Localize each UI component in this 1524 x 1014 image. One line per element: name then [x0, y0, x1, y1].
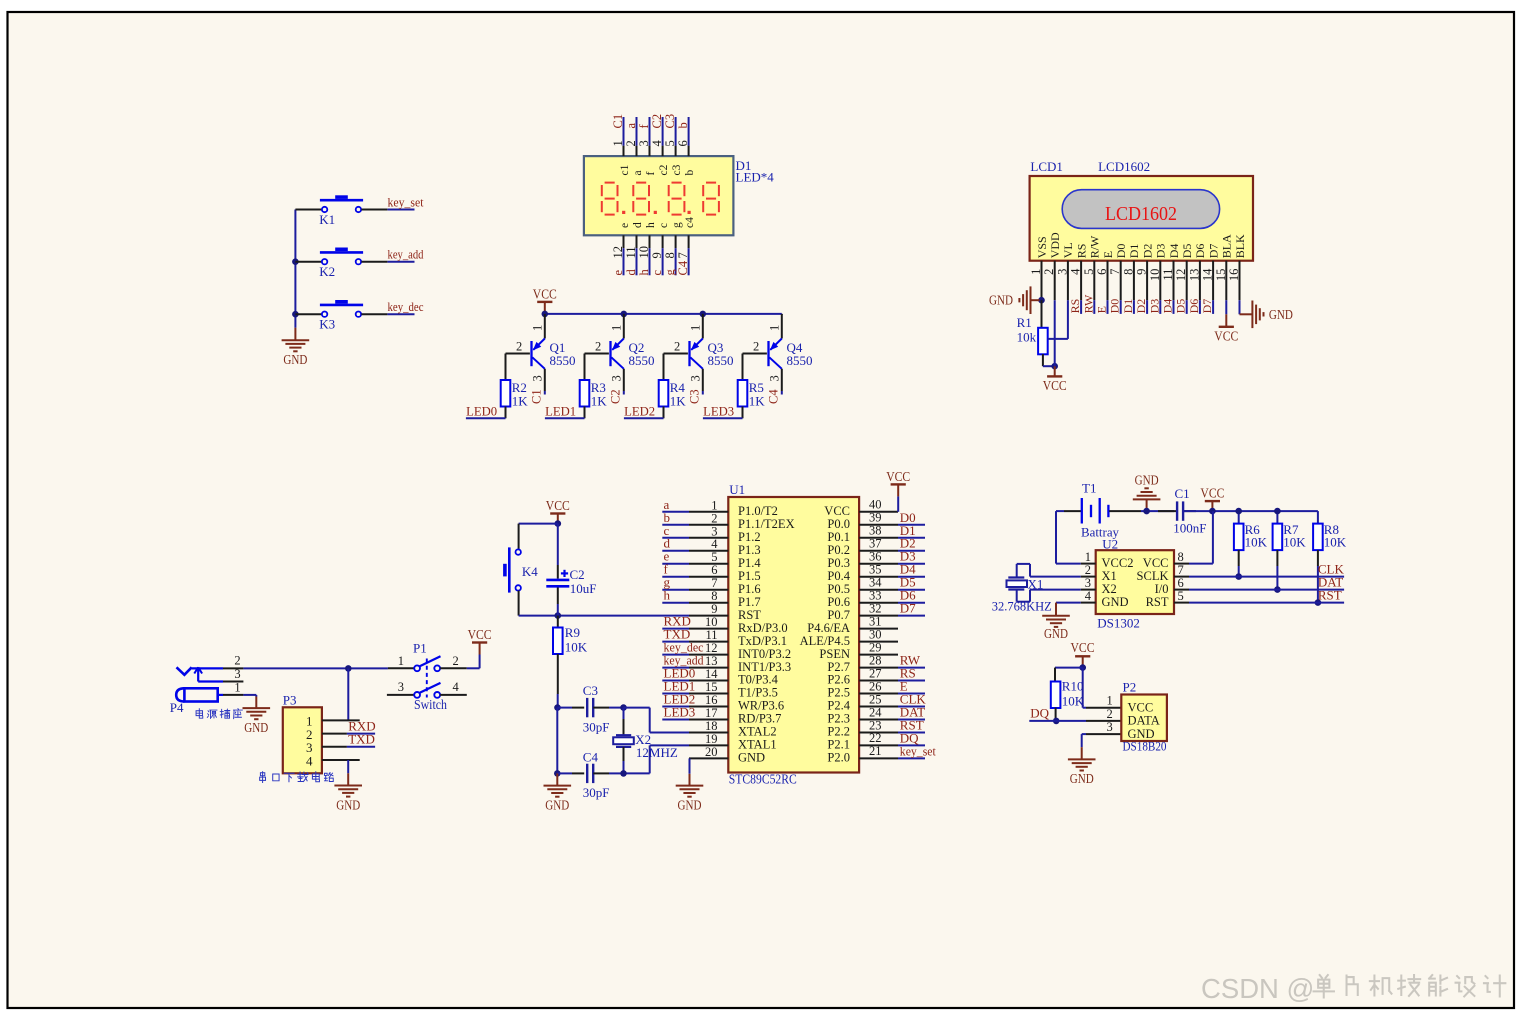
- svg-text:C1: C1: [611, 114, 625, 129]
- svg-text:10K: 10K: [565, 639, 588, 654]
- svg-text:P0.0: P0.0: [827, 517, 850, 531]
- svg-text:2: 2: [1107, 707, 1113, 721]
- svg-text:C3: C3: [663, 114, 677, 129]
- svg-text:DQ: DQ: [1030, 705, 1049, 720]
- svg-text:2: 2: [753, 340, 759, 354]
- svg-text:LED1: LED1: [545, 403, 576, 418]
- svg-text:GND: GND: [1269, 307, 1293, 322]
- svg-text:C4: C4: [766, 389, 780, 404]
- svg-text:GND: GND: [336, 797, 360, 812]
- svg-text:P4: P4: [170, 700, 184, 715]
- svg-text:2: 2: [234, 653, 240, 667]
- svg-text:8: 8: [663, 252, 677, 258]
- svg-text:16: 16: [705, 693, 718, 707]
- svg-text:VCC: VCC: [824, 504, 850, 518]
- svg-text:2: 2: [711, 511, 717, 525]
- svg-text:9: 9: [650, 252, 664, 258]
- svg-text:14: 14: [1201, 268, 1215, 281]
- svg-text:15: 15: [705, 680, 718, 694]
- svg-text:P1.2: P1.2: [738, 530, 761, 544]
- svg-text:P2.7: P2.7: [827, 660, 850, 674]
- svg-text:LED2: LED2: [624, 403, 655, 418]
- svg-text:C1: C1: [529, 389, 543, 404]
- svg-text:C2: C2: [608, 389, 622, 404]
- svg-text:P1.1/T2EX: P1.1/T2EX: [738, 517, 795, 531]
- svg-text:RxD/P3.0: RxD/P3.0: [738, 621, 788, 635]
- svg-text:P3: P3: [283, 693, 297, 708]
- svg-text:U1: U1: [729, 482, 745, 497]
- svg-text:RST: RST: [1146, 595, 1169, 609]
- svg-text:P1.6: P1.6: [738, 582, 761, 596]
- svg-text:P1.0/T2: P1.0/T2: [738, 504, 778, 518]
- svg-text:2: 2: [516, 340, 522, 354]
- svg-text:21: 21: [869, 744, 882, 758]
- svg-text:29: 29: [869, 640, 882, 654]
- svg-text:9: 9: [1135, 269, 1149, 275]
- svg-text:33: 33: [869, 589, 882, 603]
- svg-text:12MHZ: 12MHZ: [636, 745, 678, 760]
- svg-text:1K: 1K: [749, 394, 766, 409]
- svg-text:P2.5: P2.5: [827, 686, 850, 700]
- svg-text:D6: D6: [1193, 244, 1207, 259]
- svg-text:D4: D4: [1161, 299, 1175, 314]
- svg-text:PSEN: PSEN: [819, 647, 850, 661]
- svg-text:D1: D1: [1121, 299, 1135, 314]
- svg-text:8550: 8550: [550, 353, 576, 368]
- svg-text:E: E: [1101, 251, 1115, 258]
- svg-text:K3: K3: [319, 317, 335, 332]
- svg-text:b: b: [676, 122, 690, 128]
- svg-text:C4: C4: [583, 749, 599, 764]
- svg-text:38: 38: [869, 524, 882, 538]
- svg-text:5: 5: [711, 550, 717, 564]
- svg-text:GND: GND: [244, 720, 268, 735]
- svg-text:P2.4: P2.4: [827, 699, 850, 713]
- svg-text:VCC: VCC: [1200, 486, 1224, 501]
- svg-text:CSDN @: CSDN @: [1201, 973, 1314, 1004]
- svg-text:a: a: [624, 123, 638, 129]
- svg-text:P1.5: P1.5: [738, 569, 761, 583]
- svg-text:d: d: [624, 269, 638, 276]
- svg-text:1: 1: [711, 498, 717, 512]
- svg-text:4: 4: [453, 680, 460, 694]
- svg-text:17: 17: [705, 706, 718, 720]
- svg-text:D0: D0: [1114, 244, 1128, 259]
- svg-text:1: 1: [1107, 694, 1113, 708]
- svg-text:3: 3: [398, 680, 404, 694]
- svg-text:32.768KHZ: 32.768KHZ: [992, 599, 1052, 614]
- svg-text:RST: RST: [738, 608, 761, 622]
- svg-text:P1: P1: [413, 641, 427, 656]
- svg-text:GND: GND: [1070, 771, 1094, 786]
- svg-text:GND: GND: [738, 751, 765, 765]
- svg-text:DATA: DATA: [1128, 714, 1160, 728]
- svg-text:40: 40: [869, 498, 882, 512]
- svg-text:D2: D2: [1134, 299, 1148, 314]
- svg-text:P1.3: P1.3: [738, 543, 761, 557]
- svg-text:E: E: [1095, 306, 1109, 313]
- svg-text:10K: 10K: [1283, 535, 1306, 550]
- svg-text:c2: c2: [658, 164, 670, 175]
- svg-text:BLK: BLK: [1233, 234, 1247, 258]
- svg-text:h: h: [645, 222, 657, 228]
- svg-text:I/0: I/0: [1155, 582, 1169, 596]
- svg-text:h: h: [637, 269, 651, 276]
- svg-text:P4.6/EA: P4.6/EA: [807, 621, 850, 635]
- svg-text:VCC: VCC: [546, 498, 570, 513]
- svg-text:key_add: key_add: [388, 247, 424, 262]
- svg-text:23: 23: [869, 718, 882, 732]
- svg-text:1: 1: [1085, 550, 1091, 564]
- svg-text:2: 2: [1042, 269, 1056, 275]
- svg-text:1: 1: [610, 325, 624, 331]
- svg-text:10K: 10K: [1324, 535, 1347, 550]
- svg-text:STC89C52RC: STC89C52RC: [729, 772, 797, 787]
- svg-text:6: 6: [711, 563, 717, 577]
- svg-text:TxD/P3.1: TxD/P3.1: [738, 634, 787, 648]
- svg-text:D4: D4: [1167, 244, 1181, 259]
- svg-text:35: 35: [869, 563, 882, 577]
- svg-text:4: 4: [1085, 589, 1092, 603]
- svg-text:5: 5: [1082, 269, 1096, 275]
- svg-text:P2.0: P2.0: [827, 751, 850, 765]
- svg-text:VCC: VCC: [1214, 328, 1238, 343]
- svg-text:3: 3: [531, 375, 545, 381]
- svg-text:VCC: VCC: [1071, 640, 1095, 655]
- svg-text:10K: 10K: [1245, 535, 1268, 550]
- svg-text:LCD1602: LCD1602: [1105, 203, 1177, 225]
- svg-text:D7: D7: [1206, 244, 1220, 259]
- svg-text:12: 12: [705, 641, 718, 655]
- svg-text:7: 7: [676, 252, 690, 258]
- svg-text:1: 1: [1029, 269, 1043, 275]
- svg-text:10: 10: [705, 615, 718, 629]
- svg-text:11: 11: [624, 246, 638, 258]
- svg-text:18: 18: [705, 719, 718, 733]
- svg-text:b: b: [684, 170, 696, 176]
- svg-text:GND: GND: [678, 797, 702, 812]
- svg-text:37: 37: [869, 537, 882, 551]
- svg-text:DS1302: DS1302: [1097, 616, 1140, 631]
- svg-text:7: 7: [1178, 563, 1184, 577]
- svg-text:26: 26: [869, 679, 882, 693]
- svg-text:32: 32: [869, 601, 882, 615]
- svg-text:8550: 8550: [708, 353, 734, 368]
- svg-text:22: 22: [869, 731, 882, 745]
- svg-text:P2.2: P2.2: [827, 725, 850, 739]
- svg-text:GND: GND: [1102, 595, 1129, 609]
- svg-text:VCC: VCC: [886, 469, 910, 484]
- svg-text:36: 36: [869, 550, 882, 564]
- svg-text:16: 16: [1227, 269, 1241, 282]
- svg-text:D7: D7: [1200, 299, 1214, 314]
- svg-text:3: 3: [637, 140, 651, 146]
- svg-text:DS18B20: DS18B20: [1123, 739, 1167, 754]
- svg-text:D6: D6: [1187, 299, 1201, 314]
- svg-text:SCLK: SCLK: [1137, 569, 1169, 583]
- svg-text:100nF: 100nF: [1173, 520, 1206, 535]
- svg-text:key_set: key_set: [900, 743, 936, 758]
- svg-text:GND: GND: [989, 293, 1013, 308]
- svg-text:P0.5: P0.5: [827, 582, 850, 596]
- svg-text:LED3: LED3: [664, 705, 696, 720]
- svg-text:key_set: key_set: [388, 195, 424, 210]
- svg-text:P2.1: P2.1: [827, 738, 850, 752]
- svg-text:6: 6: [676, 140, 690, 146]
- svg-text:10k: 10k: [1017, 330, 1037, 345]
- svg-text:8: 8: [711, 589, 717, 603]
- svg-text:12: 12: [611, 246, 625, 259]
- svg-text:P0.1: P0.1: [827, 530, 850, 544]
- svg-text:VCC: VCC: [468, 627, 492, 642]
- svg-text:INT1/P3.3: INT1/P3.3: [738, 660, 791, 674]
- svg-text:1: 1: [768, 325, 782, 331]
- svg-text:c: c: [658, 223, 670, 228]
- svg-text:P0.3: P0.3: [827, 556, 850, 570]
- svg-text:3: 3: [689, 375, 703, 381]
- svg-text:10: 10: [1148, 269, 1162, 282]
- svg-text:3: 3: [1107, 720, 1113, 734]
- svg-text:2: 2: [624, 140, 638, 146]
- svg-text:C4: C4: [676, 260, 690, 275]
- svg-text:25: 25: [869, 692, 882, 706]
- svg-text:P0.4: P0.4: [827, 569, 850, 583]
- svg-text:e: e: [619, 223, 631, 228]
- svg-text:31: 31: [869, 614, 882, 628]
- svg-text:X1: X1: [1102, 569, 1117, 583]
- svg-text:TXD: TXD: [348, 732, 375, 747]
- svg-text:VCC: VCC: [1128, 701, 1154, 715]
- svg-text:LCD1: LCD1: [1030, 159, 1063, 174]
- svg-text:P2.3: P2.3: [827, 712, 850, 726]
- svg-text:WR/P3.6: WR/P3.6: [738, 699, 784, 713]
- svg-text:X2: X2: [1102, 582, 1117, 596]
- svg-text:7: 7: [711, 576, 717, 590]
- svg-text:GND: GND: [283, 352, 307, 367]
- svg-text:RS: RS: [1068, 299, 1082, 314]
- svg-text:11: 11: [705, 628, 717, 642]
- svg-text:g: g: [671, 222, 683, 228]
- svg-text:4: 4: [711, 537, 718, 551]
- svg-text:VCC2: VCC2: [1102, 556, 1134, 570]
- svg-text:30: 30: [869, 627, 882, 641]
- svg-text:6: 6: [1178, 576, 1184, 590]
- svg-text:1: 1: [234, 681, 240, 695]
- svg-text:VSS: VSS: [1035, 236, 1049, 258]
- svg-text:2: 2: [595, 340, 601, 354]
- svg-text:1K: 1K: [512, 394, 529, 409]
- svg-text:LED0: LED0: [466, 403, 497, 418]
- svg-text:34: 34: [869, 576, 882, 590]
- svg-text:VCC: VCC: [1143, 556, 1169, 570]
- svg-text:9: 9: [711, 602, 717, 616]
- svg-text:T1/P3.5: T1/P3.5: [738, 686, 778, 700]
- svg-text:D0: D0: [1108, 299, 1122, 314]
- svg-text:R10: R10: [1062, 679, 1084, 694]
- svg-text:5: 5: [1178, 589, 1184, 603]
- svg-text:D3: D3: [1154, 244, 1168, 259]
- svg-text:3: 3: [1055, 269, 1069, 275]
- svg-text:1K: 1K: [670, 394, 687, 409]
- svg-text:R1: R1: [1017, 315, 1032, 330]
- svg-text:LED3: LED3: [703, 403, 734, 418]
- svg-text:INT0/P3.2: INT0/P3.2: [738, 647, 791, 661]
- svg-text:GND: GND: [1044, 626, 1068, 641]
- svg-text:15: 15: [1214, 269, 1228, 282]
- svg-text:e: e: [611, 270, 625, 276]
- svg-text:1: 1: [398, 654, 404, 668]
- svg-text:c4: c4: [684, 217, 696, 228]
- svg-text:U2: U2: [1102, 537, 1118, 552]
- svg-text:R/W: R/W: [1088, 235, 1102, 258]
- svg-text:10K: 10K: [1062, 694, 1085, 709]
- svg-text:27: 27: [869, 666, 882, 680]
- svg-text:6: 6: [1095, 269, 1109, 275]
- svg-text:LCD1602: LCD1602: [1098, 159, 1150, 174]
- svg-text:D2: D2: [1140, 244, 1154, 259]
- svg-text:h: h: [664, 588, 671, 603]
- svg-text:4: 4: [306, 753, 313, 768]
- svg-text:30pF: 30pF: [583, 720, 610, 735]
- svg-text:5: 5: [663, 140, 677, 146]
- svg-text:7: 7: [1108, 269, 1122, 275]
- svg-text:RS: RS: [1074, 244, 1088, 259]
- svg-text:XTAL1: XTAL1: [738, 738, 777, 752]
- svg-text:C2: C2: [570, 567, 585, 582]
- svg-text:P2.6: P2.6: [827, 673, 850, 687]
- svg-text:8: 8: [1121, 269, 1135, 275]
- svg-text:D5: D5: [1174, 299, 1188, 314]
- svg-text:C2: C2: [650, 114, 664, 129]
- svg-text:P0.7: P0.7: [827, 608, 850, 622]
- svg-text:24: 24: [869, 705, 882, 719]
- svg-text:T0/P3.4: T0/P3.4: [738, 673, 779, 687]
- svg-text:3: 3: [711, 524, 717, 538]
- svg-text:LED*4: LED*4: [736, 170, 775, 185]
- svg-text:2: 2: [453, 654, 459, 668]
- svg-text:c: c: [650, 270, 664, 276]
- svg-text:4: 4: [650, 140, 664, 147]
- svg-text:Switch: Switch: [414, 697, 447, 712]
- svg-text:c3: c3: [671, 164, 683, 175]
- svg-text:8550: 8550: [787, 353, 813, 368]
- svg-text:P0.2: P0.2: [827, 543, 850, 557]
- svg-text:P0.6: P0.6: [827, 595, 850, 609]
- svg-text:13: 13: [705, 654, 718, 668]
- svg-text:key_dec: key_dec: [388, 299, 424, 314]
- svg-text:1: 1: [531, 325, 545, 331]
- svg-text:11: 11: [1161, 269, 1175, 281]
- svg-text:R9: R9: [565, 625, 580, 640]
- svg-text:P2: P2: [1123, 680, 1137, 695]
- svg-text:XTAL2: XTAL2: [738, 725, 777, 739]
- svg-text:GND: GND: [1135, 472, 1159, 487]
- svg-text:VCC: VCC: [533, 286, 557, 301]
- svg-text:d: d: [632, 222, 644, 228]
- svg-text:3: 3: [1085, 576, 1091, 590]
- svg-text:C1: C1: [1175, 486, 1190, 501]
- svg-text:30pF: 30pF: [583, 785, 610, 800]
- svg-text:P1.4: P1.4: [738, 556, 761, 570]
- svg-text:1: 1: [611, 140, 625, 146]
- svg-text:C3: C3: [583, 683, 598, 698]
- svg-text:ALE/P4.5: ALE/P4.5: [800, 634, 850, 648]
- svg-text:13: 13: [1187, 269, 1201, 282]
- svg-text:VDD: VDD: [1048, 232, 1062, 258]
- svg-text:K4: K4: [522, 564, 538, 579]
- svg-text:8550: 8550: [629, 353, 655, 368]
- svg-text:20: 20: [705, 745, 718, 759]
- svg-text:D3: D3: [1147, 299, 1161, 314]
- svg-text:P1.7: P1.7: [738, 595, 761, 609]
- svg-text:19: 19: [705, 732, 718, 746]
- svg-text:2: 2: [674, 340, 680, 354]
- svg-text:8: 8: [1178, 550, 1184, 564]
- svg-text:GND: GND: [545, 797, 569, 812]
- svg-text:28: 28: [869, 653, 882, 667]
- svg-text:2: 2: [1085, 563, 1091, 577]
- svg-text:C3: C3: [687, 389, 701, 404]
- svg-text:g: g: [663, 269, 677, 276]
- svg-text:RD/P3.7: RD/P3.7: [738, 712, 781, 726]
- svg-text:10uF: 10uF: [570, 581, 597, 596]
- svg-text:RW: RW: [1081, 294, 1095, 313]
- svg-text:K1: K1: [319, 212, 335, 227]
- svg-text:4: 4: [1069, 268, 1083, 275]
- svg-text:3: 3: [768, 375, 782, 381]
- svg-text:D1: D1: [1127, 244, 1141, 259]
- svg-text:T1: T1: [1082, 481, 1096, 496]
- svg-text:3: 3: [610, 375, 624, 381]
- svg-text:VL: VL: [1061, 242, 1075, 258]
- svg-text:VCC: VCC: [1043, 378, 1067, 393]
- svg-text:a: a: [632, 170, 644, 175]
- svg-text:3: 3: [234, 667, 240, 681]
- svg-text:1: 1: [689, 325, 703, 331]
- svg-text:f: f: [645, 172, 657, 176]
- svg-text:RST: RST: [1318, 587, 1342, 602]
- svg-text:1K: 1K: [591, 394, 608, 409]
- svg-text:12: 12: [1174, 269, 1188, 282]
- svg-text:D5: D5: [1180, 244, 1194, 259]
- svg-text:39: 39: [869, 511, 882, 525]
- svg-text:c1: c1: [619, 164, 631, 175]
- svg-text:BLA: BLA: [1220, 234, 1234, 258]
- svg-text:D7: D7: [900, 601, 916, 616]
- svg-text:14: 14: [705, 667, 718, 681]
- svg-text:K2: K2: [319, 264, 335, 279]
- svg-text:10: 10: [637, 246, 651, 259]
